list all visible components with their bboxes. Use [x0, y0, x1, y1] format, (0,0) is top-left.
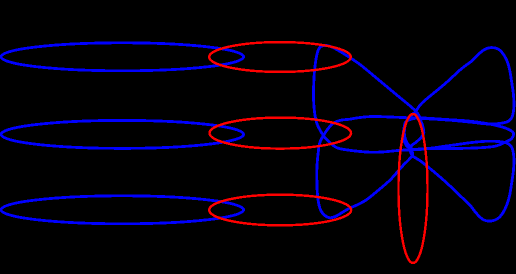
red ellipse row 1: [209, 42, 351, 72]
blue ellipse row 1 (top left): [1, 43, 244, 71]
red ellipse row 2: [209, 118, 351, 149]
blue ellipse row 3 (bottom left): [1, 196, 244, 224]
blue pinched horizontal loop (right, middle): [403, 118, 513, 149]
tall red ellipse (right figure): [399, 114, 428, 263]
blue ellipse row 2 (middle left): [1, 120, 244, 148]
blue bent loop lower-left to upper-right (right figure): [317, 48, 514, 218]
red ellipse row 3: [209, 195, 351, 226]
blue bent loop upper-left to lower-right (right figure): [313, 45, 513, 221]
